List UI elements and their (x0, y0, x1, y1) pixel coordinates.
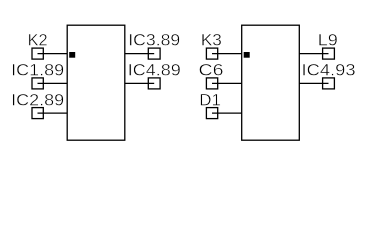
terminal box IC1.89 (32, 78, 43, 89)
wire U1 to IC4.89 (125, 82, 154, 84)
terminal box IC3.89 (148, 48, 160, 59)
svg-text:C6: C6 (199, 62, 224, 80)
svg-text:IC1.89: IC1.89 (11, 62, 64, 80)
component U2 body (242, 25, 300, 140)
terminal box K3 (206, 48, 217, 59)
component U1 pin-1 marker (69, 52, 75, 58)
wire C6 to U2 (212, 82, 242, 84)
terminal box IC4.93 (323, 78, 335, 89)
svg-text:IC4.93: IC4.93 (302, 62, 356, 80)
wire K2 to U1 (38, 53, 68, 55)
svg-text:L9: L9 (318, 32, 338, 50)
svg-text:D1: D1 (199, 91, 221, 109)
component U2 pin-1 marker (244, 52, 250, 58)
wire U1 to IC3.89 (125, 53, 154, 55)
terminal box IC2.89 (32, 108, 43, 119)
svg-text:IC2.89: IC2.89 (11, 91, 64, 109)
wire U2 to L9 (299, 53, 328, 55)
svg-text:IC4.89: IC4.89 (128, 62, 181, 80)
svg-text:K2: K2 (28, 32, 48, 50)
svg-text:IC3.89: IC3.89 (128, 32, 180, 50)
terminal box D1 (206, 108, 217, 119)
wire U2 to IC4.93 (299, 82, 328, 84)
component U1 body (67, 25, 125, 140)
svg-text:K3: K3 (201, 32, 222, 50)
wire IC1.89 to U1 (38, 82, 68, 84)
terminal box K2 (32, 48, 43, 59)
wire K3 to U2 (212, 53, 242, 55)
terminal box C6 (206, 78, 217, 89)
wire D1 to U2 (212, 112, 242, 114)
terminal box IC4.89 (148, 78, 160, 89)
terminal box L9 (323, 48, 335, 59)
wire IC2.89 to U1 (38, 112, 68, 114)
